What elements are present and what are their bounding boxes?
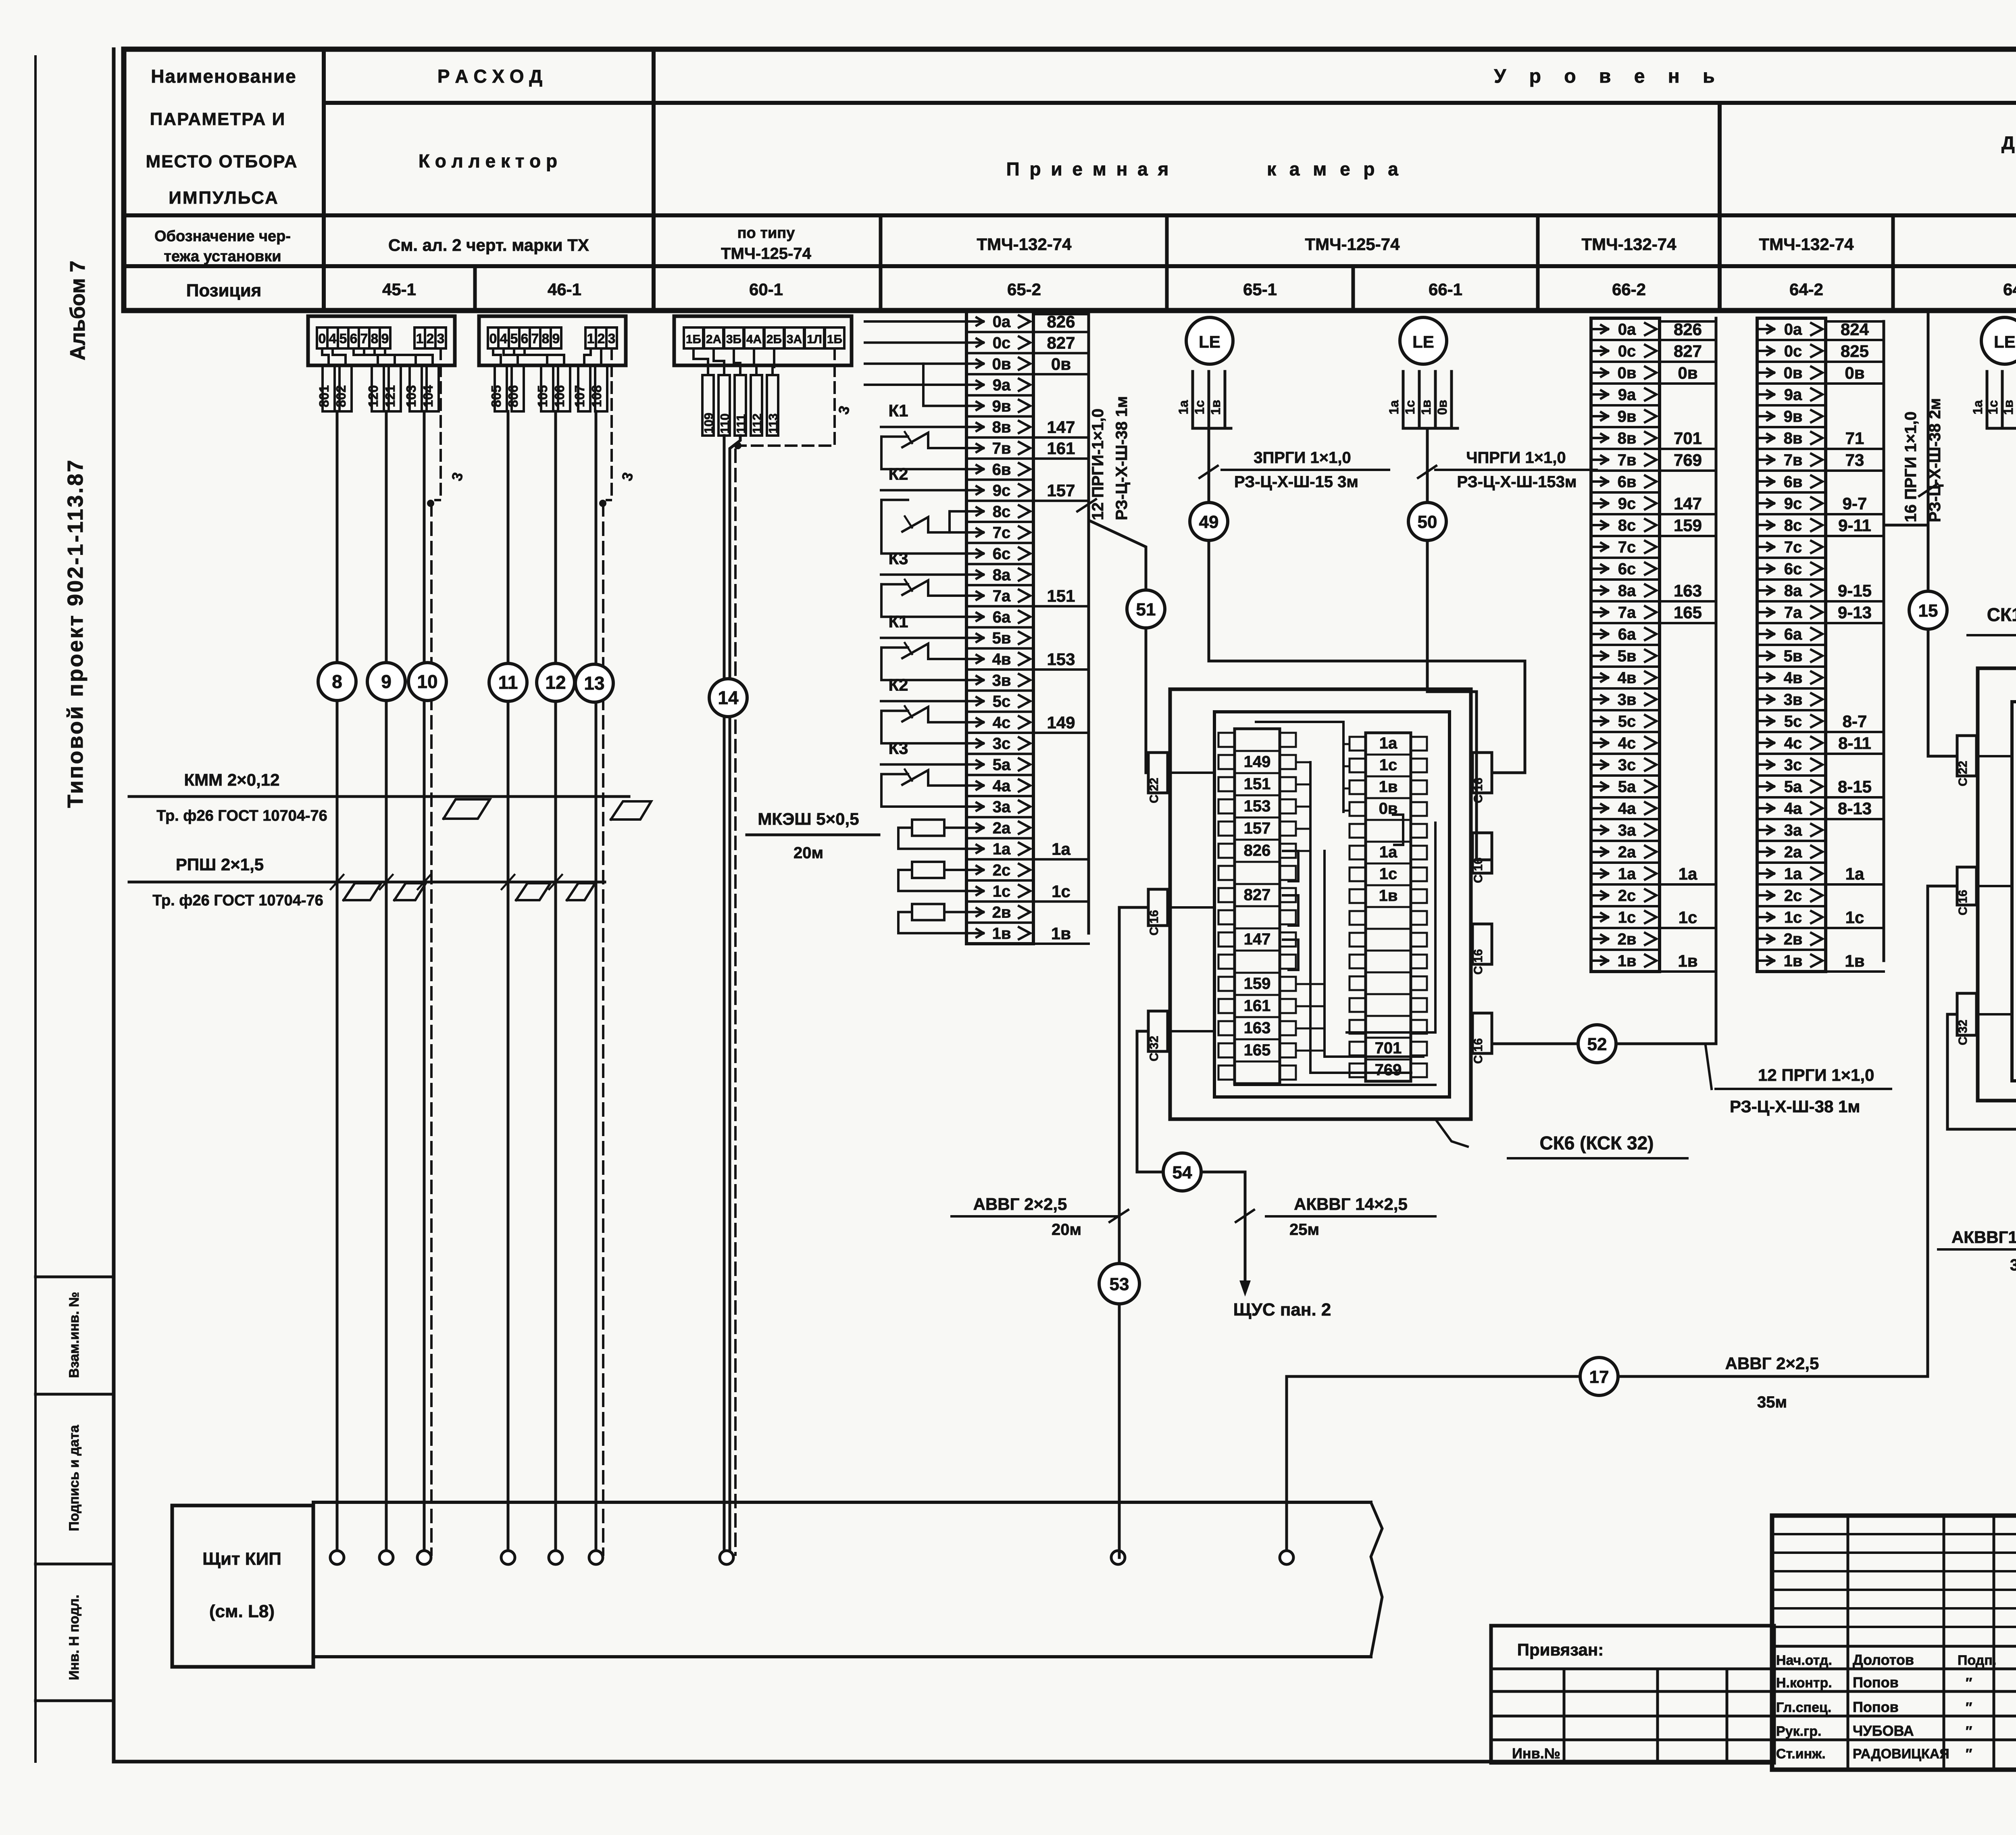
svg-text:113: 113 [766,413,780,434]
header table outer border [124,49,2016,311]
junction dot wire 108/ground [599,500,606,507]
svg-text:151: 151 [1244,775,1271,793]
strip 64-2 (XT3) bus wire label 1с [1826,927,1884,929]
svg-text:РЗ-Ц-Х-Ш-153м: РЗ-Ц-Х-Ш-153м [1457,473,1577,491]
strip 65-2 (XT1) bus wire label 161 [1033,457,1089,460]
strip 65-2 (XT1) bus wire label 149 [1033,732,1089,734]
svg-text:9с: 9с [993,482,1011,500]
wire from 65-2 bus to circle 51 [1089,507,1146,590]
svg-text:Н.контр.: Н.контр. [1776,1675,1832,1691]
strip 66-2 (XT2) bus wire label 147 [1660,513,1716,515]
SK1 connector tab S22 (left) [1957,736,1976,776]
svg-text:3ПРГИ 1×1,0: 3ПРГИ 1×1,0 [1254,449,1351,467]
SK6 hook jumper at 147 [1283,940,1298,970]
svg-text:1в: 1в [1379,778,1398,796]
svg-text:МЕСТО ОТБОРА: МЕСТО ОТБОРА [146,152,298,171]
svg-text:С 22: С 22 [1148,778,1161,803]
svg-text:121: 121 [383,385,398,407]
wire 66-2 bus down to circle 52 line [1715,318,1718,1044]
svg-text:1а: 1а [1618,865,1636,883]
svg-text:3с: 3с [1784,756,1802,774]
SK6 connector tab S16 (left) [1148,889,1168,926]
svg-text:4: 4 [329,331,337,346]
svg-text:9: 9 [552,331,560,346]
strip 64-2 (XT3) bus wire label 8-11 [1826,753,1884,755]
wire 105/106 down to panel [554,411,557,1558]
svg-text:9-7: 9-7 [1843,494,1867,513]
svg-text:МКЭШ 5×0,5: МКЭШ 5×0,5 [758,809,859,828]
svg-text:Инв. Н подл.: Инв. Н подл. [67,1595,82,1680]
cable position circle 49 [1190,503,1228,540]
drawing frame left border [112,49,116,1762]
strip 65-2 (XT1) bus wire label 157 [1033,500,1089,502]
svg-text:2с: 2с [1784,887,1802,905]
ground wire 3 dashed from 45-1 cell 3 [435,348,441,500]
level sensor LE pos.66-1 [1400,317,1447,364]
strip 64-2 (XT3) bus wire label 824 [1826,339,1884,341]
svg-text:8-15: 8-15 [1838,777,1872,796]
svg-text:Тр. ф26 ГОСТ 10704-76: Тр. ф26 ГОСТ 10704-76 [156,807,327,824]
tube marker parallelogram on KMM line 1 [444,799,490,819]
ground wire 3 dash-dot from 60-1 cell 1B [740,348,835,446]
svg-text:7с: 7с [1784,538,1802,556]
strip 65-2 (XT1) bus wire label 147 [1033,436,1089,439]
strip 66-2 (XT2) bus wire label 1а [1660,883,1716,886]
cable position circle 15 [1909,591,1947,629]
resistor R rows 2a/1a [912,819,944,836]
svg-text:161: 161 [1244,997,1271,1015]
svg-text:″: ″ [1966,1675,1972,1691]
svg-text:1а: 1а [993,840,1011,858]
sidebar box divider line 3 [35,1563,114,1566]
svg-text:107: 107 [572,385,587,407]
cable line KMM 2x0.12 with tube note [129,795,629,798]
title block upper small rows [1772,1533,2016,1535]
svg-text:0а: 0а [1618,321,1636,338]
panel top boundary line [313,1501,1371,1504]
sheet outer left edge line [34,56,37,1762]
cable line RPSh 2x1.5 with tube note [129,881,605,884]
panel right-end break squiggle [1371,1502,1382,1657]
svg-text:4с: 4с [993,714,1011,732]
wire 16PRGI vertical from table to circle 15 [1927,314,1930,591]
svg-text:17: 17 [1589,1367,1609,1387]
wire from 46-1 cells 0,4 to stub 805/806 [493,348,501,365]
level sensor LE pos.65-1 [1186,317,1233,364]
svg-text:″: ″ [1966,1700,1972,1715]
svg-text:65-1: 65-1 [1243,280,1277,299]
strip 64-2 (XT3) bus wire label 9-13 [1826,622,1884,624]
wire stub labels 103/104 (pos.45-1) [410,365,422,411]
wire from 45-1 cells 6,7 to stub 120/121 [354,348,378,365]
svg-text:153: 153 [1047,650,1075,669]
svg-text:163: 163 [1244,1019,1271,1037]
svg-text:50: 50 [1418,512,1437,532]
SK6 connector tab S16-1 (right) [1472,753,1492,793]
svg-text:8-11: 8-11 [1838,734,1871,753]
wire bundle 60-1 down to panel (solid pair) [723,436,726,1558]
svg-text:159: 159 [1674,516,1702,535]
svg-text:6с: 6с [993,545,1011,563]
ground wire 3 dashed from 46-1 cell 3 [607,348,612,500]
terminal strip 66-2 (XT2) collector bus [1715,321,1718,961]
SK6 connector tab S22 (left) [1148,753,1168,793]
svg-text:165: 165 [1244,1041,1271,1059]
terminal strip 64-2 (XT3) row labels and pin arrows [1760,328,1774,330]
sidebar box divider line 4 [35,1699,114,1702]
svg-text:5в: 5в [1784,647,1803,665]
tube marker parallelogram on RPSh line 1 [344,883,381,900]
svg-text:103: 103 [404,385,419,407]
svg-text:45-1: 45-1 [382,280,416,299]
svg-text:104: 104 [421,385,435,407]
svg-text:ТМЧ-132-74: ТМЧ-132-74 [1759,235,1854,254]
svg-text:1с: 1с [1192,400,1207,415]
svg-text:149: 149 [1244,753,1271,771]
svg-text:1: 1 [587,331,595,346]
svg-text:3с: 3с [993,735,1011,753]
svg-text:6в: 6в [992,461,1011,478]
wire stub labels 107/108 (pos.46-1) [578,365,590,411]
privyazan table outer box [1491,1626,1774,1763]
wire SK1 S32 to circle 18 and down arrow [1947,1014,2016,1185]
svg-text:2а: 2а [1784,843,1802,861]
svg-text:8: 8 [371,331,379,346]
cable position circle 10 [408,663,446,701]
svg-text:8с: 8с [1784,517,1802,534]
svg-text:5: 5 [510,331,518,346]
electrodes of LE pos.64-1 [1986,371,1989,428]
panel bottom boundary line [313,1655,1371,1658]
terminal block 45-1 (XT) cell row [317,327,327,348]
cable position circle 14 [709,679,747,717]
svg-text:0в: 0в [992,355,1011,373]
svg-text:2а: 2а [993,819,1011,837]
svg-text:0: 0 [319,331,326,346]
svg-text:1Б: 1Б [686,333,701,346]
svg-text:0в: 0в [1784,364,1803,382]
wire from 45-1 cells 8,9 to stub 103/104 [375,348,416,365]
svg-text:ЧУБОВА: ЧУБОВА [1853,1722,1914,1739]
svg-text:4с: 4с [1618,734,1636,752]
svg-text:СК6 (КСК 32): СК6 (КСК 32) [1539,1132,1654,1153]
cable position circle 9 [367,663,405,701]
svg-text:5с: 5с [1784,713,1802,730]
svg-text:0в: 0в [1678,363,1697,382]
strip 66-2 (XT2) bus wire label 701 [1660,448,1716,450]
strip 66-2 (XT2) bus wire label 1с [1660,927,1716,929]
svg-text:149: 149 [1047,713,1075,732]
wire from circle 51 to SK6 connector S22 [1145,628,1148,773]
strip 64-2 (XT3) bus wire label 73 [1826,469,1884,472]
svg-text:8-13: 8-13 [1838,799,1872,818]
svg-text:С 16: С 16 [1472,778,1485,803]
svg-text:801: 801 [317,385,331,407]
svg-text:ЧПРГИ 1×1,0: ЧПРГИ 1×1,0 [1466,449,1566,467]
strip 64-2 (XT3) bus wire label 9-11 [1826,535,1884,537]
svg-text:У р о в е н ь: У р о в е н ь [1494,66,1723,87]
svg-text:3с: 3с [1618,756,1636,774]
terminal block 60-1 outer box [674,316,852,365]
tube marker parallelogram on KMM line 2 [611,801,651,819]
svg-text:6а: 6а [1618,626,1636,643]
header table horizontal: row3 bottom (oboznachenie) [124,264,2016,268]
svg-text:1: 1 [416,331,424,346]
header table vertical: Priyemnaya kamera right edge [1718,103,1722,311]
svg-text:826: 826 [1674,320,1702,339]
svg-text:2в: 2в [1618,930,1637,948]
svg-text:161: 161 [1047,439,1075,458]
svg-text:3: 3 [608,331,616,346]
svg-text:4в: 4в [992,651,1011,668]
svg-text:ИМПУЛЬСА: ИМПУЛЬСА [169,188,279,208]
svg-text:0в: 0в [1845,363,1864,382]
svg-text:Альбом 7: Альбом 7 [66,261,90,361]
svg-text:825: 825 [1841,342,1869,361]
header table horizontal: row1 bottom (Rashod/Uroven) [324,101,2016,105]
wire S22 into SK1 interior [1976,755,2012,757]
field wires into strip 65-2 rows 0a-9v [865,320,966,323]
terminal block 45-1 (XT) outer box [308,316,455,365]
svg-text:С 32: С 32 [1956,1020,1970,1045]
svg-text:15: 15 [1918,601,1938,621]
svg-text:″: ″ [1966,1724,1972,1739]
svg-text:3а: 3а [993,798,1011,816]
svg-text:4: 4 [500,331,508,346]
svg-text:1а: 1а [1845,864,1864,883]
svg-text:2с: 2с [993,861,1011,879]
wire SK6 S32 to circle 54 [1137,1031,1163,1172]
svg-text:147: 147 [1244,930,1271,948]
svg-text:5а: 5а [1618,778,1636,796]
svg-text:7в: 7в [1784,451,1803,469]
svg-text:Гл.спец.: Гл.спец. [1776,1700,1831,1715]
cable position circle 51 [1127,590,1165,628]
cable position circle 11 [489,663,527,701]
svg-text:4а: 4а [1784,800,1802,817]
wire S32 into SK6 interior [1168,1030,1214,1032]
svg-text:9а: 9а [1618,386,1636,404]
svg-text:1а: 1а [1052,840,1070,859]
strip 64-2 (XT3) bus wire label 9-7 [1826,513,1884,515]
dashed companion wire down (45-1) [430,503,433,1555]
svg-text:769: 769 [1375,1061,1402,1079]
svg-text:6: 6 [350,331,358,346]
strip 64-2 (XT3) bus wire label 8-15 [1826,796,1884,799]
svg-text:РЗ-Ц-Х-Ш-38 1м: РЗ-Ц-Х-Ш-38 1м [1730,1097,1860,1116]
svg-text:Р А С Х О Д: Р А С Х О Д [437,66,542,87]
svg-text:СК1 (КСК ?: СК1 (КСК ? [1987,604,2016,625]
electrodes of LE pos.65-1 [1191,371,1194,428]
strip 64-2 (XT3) bus wire label 8-13 [1826,818,1884,820]
svg-text:РЗ-Ц-Х-Ш-15 3м: РЗ-Ц-Х-Ш-15 3м [1234,473,1358,491]
svg-text:1в: 1в [1678,951,1697,970]
strip 64-2 (XT3) bus wire label 1в [1826,970,1884,973]
svg-text:7а: 7а [993,587,1011,605]
svg-text:827: 827 [1047,333,1075,352]
svg-text:Щит КИП: Щит КИП [202,1549,281,1569]
svg-text:Д р е н а ж н ы й: Д р е н а ж н ы й [2001,132,2016,153]
strip 66-2 (XT2) bus wire label 159 [1660,535,1716,537]
strip 66-2 (XT2) bus wire label 165 [1660,622,1716,624]
strip 66-2 (XT2) bus wire label 163 [1660,600,1716,603]
SK6 internal horizontal links [1296,761,1310,763]
svg-text:109: 109 [702,413,716,434]
svg-text:157: 157 [1244,819,1271,837]
svg-text:8а: 8а [1618,582,1636,600]
header table horizontal: row2 bottom (Kollektor...) [124,213,2016,217]
svg-text:РПШ 2×1,5: РПШ 2×1,5 [176,855,264,874]
svg-text:Обозначение чер-: Обозначение чер- [154,228,291,245]
svg-text:2: 2 [427,331,434,346]
svg-text:73: 73 [1845,450,1864,469]
wire circle 49 to SK6 right connector S16-1 [1209,540,1525,773]
cable marker slash on 53 wire [1110,1210,1128,1222]
svg-text:20м: 20м [1052,1221,1081,1239]
svg-text:3А: 3А [787,333,802,346]
terminal block 46-1 (XT) outer box [479,316,626,365]
svg-text:К2: К2 [889,465,908,484]
svg-text:Подпись и дата: Подпись и дата [67,1424,82,1531]
header table vertical col 65-2 right [1165,215,1169,311]
wire stub labels 105/106 (pos.46-1) [541,365,553,411]
svg-text:2: 2 [598,331,605,346]
svg-text:К1: К1 [889,401,908,420]
svg-text:6а: 6а [1784,626,1802,643]
svg-text:1с: 1с [1679,908,1697,927]
svg-text:3в: 3в [1784,691,1803,709]
wire stub labels 120/121 (pos.45-1) [372,365,384,411]
svg-text:6с: 6с [1784,560,1802,578]
junction box SK6 outer enclosure [1170,689,1471,1119]
svg-text:1Б: 1Б [827,333,842,346]
wire 103/104 down to panel [423,411,426,1558]
common electrode bracket wire 64-1/63-1 [1987,427,2016,430]
SK6 hook jumper at 0v (right col) [1393,815,1403,845]
wire 805/806 down to panel [507,411,510,1558]
cable position circle 8 [318,663,356,701]
svg-text:ТМЧ-132-74: ТМЧ-132-74 [1582,235,1677,254]
svg-text:(см. L8): (см. L8) [209,1601,275,1621]
svg-text:5в: 5в [1618,647,1637,665]
dashed companion wire down (46-1) [602,503,604,1555]
svg-text:К1: К1 [889,612,908,631]
terminal strip 66-2 (XT2) body [1591,318,1660,972]
wire from 46-1 cells 1,2 to stub 107/108 [584,348,591,365]
svg-text:1с: 1с [1618,909,1636,926]
svg-text:Наименование: Наименование [151,66,296,87]
svg-text:С 32: С 32 [1148,1036,1161,1061]
header table vertical col 66-1 right [1536,215,1540,311]
svg-text:9в: 9в [992,397,1011,415]
svg-text:5а: 5а [1784,778,1802,796]
wire LE65-1 down to circle 49 [1208,428,1210,502]
strip 65-2 (XT1) bus wire label 1а [1033,858,1089,861]
wire S32 into SK1 interior [1976,1013,2012,1016]
svg-text:Привязан:: Привязан: [1517,1640,1604,1659]
svg-text:РЗ-Ц-Х-Ш-38 2м: РЗ-Ц-Х-Ш-38 2м [1926,398,1944,522]
svg-text:2А: 2А [706,333,721,346]
svg-text:АКВВГ10×2,5: АКВВГ10×2,5 [1951,1228,2016,1247]
terminal strip 64-2 (XT3) collector bus [1883,321,1885,961]
svg-text:4а: 4а [1618,800,1636,817]
svg-text:К2: К2 [889,676,908,694]
svg-text:10: 10 [417,671,437,692]
strip 65-2 (XT1) bus wire label 153 [1033,668,1089,671]
svg-text:1с: 1с [1784,909,1802,926]
svg-text:8а: 8а [1784,582,1802,600]
resistor R rows 2s/1s [912,862,944,878]
svg-text:9а: 9а [1784,386,1802,404]
svg-text:Ст.инж.: Ст.инж. [1776,1746,1826,1762]
svg-text:147: 147 [1674,494,1702,513]
SK6 right terminal cell column [1366,733,1411,1081]
cable position circle 17 [1580,1357,1618,1395]
terminal strip 65-2 (XT1) collector bus [1087,314,1090,933]
terminal strip 65-2 (XT1) body [966,311,1033,944]
svg-text:8в: 8в [1618,430,1637,447]
resistor R rows 2v/1v [912,904,944,920]
svg-text:РЗ-Ц-Х-Ш-38 1м: РЗ-Ц-Х-Ш-38 1м [1113,396,1131,520]
junction box SK1 inner box [2012,702,2016,1081]
svg-text:8с: 8с [993,503,1011,521]
svg-text:0в: 0в [1435,400,1450,415]
strip 65-2 (XT1) bus wire label 1с [1033,900,1089,903]
svg-text:163: 163 [1674,581,1702,600]
svg-text:Взам.инв. №: Взам.инв. № [67,1292,82,1378]
svg-text:827: 827 [1244,886,1271,904]
svg-text:4А: 4А [746,333,762,346]
cable marker slash 4PRGI [1418,466,1436,478]
svg-text:3Б: 3Б [726,333,741,346]
strip 64-2 (XT3) bus wire label 71 [1826,448,1884,450]
svg-text:к а м е р а: к а м е р а [1267,158,1402,179]
svg-text:С 16: С 16 [1472,1038,1485,1063]
svg-text:66-2: 66-2 [1612,280,1646,299]
cable leader slash 12PRGI at 52 [1706,1045,1712,1089]
wire 107/108 down to panel [595,411,598,1558]
svg-text:51: 51 [1136,600,1156,619]
svg-text:9а: 9а [993,376,1011,394]
svg-text:LE: LE [1412,332,1434,351]
strip 64-2 (XT3) bus wire label 825 [1826,361,1884,363]
svg-text:147: 147 [1047,418,1075,437]
svg-text:9-15: 9-15 [1838,581,1872,600]
svg-text:16 ПРГИ 1×1,0: 16 ПРГИ 1×1,0 [1902,411,1920,522]
label SK6 (KSK 32) with leader [1435,1119,1468,1147]
svg-text:4в: 4в [1618,669,1637,687]
header table vertical col 45-1/46-1 divider [473,266,477,311]
svg-text:1в: 1в [1051,924,1071,943]
header table vertical col 64-2 right / 64-1 left [1891,215,1895,311]
svg-text:Нач.отд.: Нач.отд. [1776,1653,1832,1668]
strip 66-2 (XT2) bus wire label 826 [1660,339,1716,341]
svg-text:1а: 1а [1379,734,1397,752]
svg-text:2а: 2а [1618,843,1636,861]
svg-text:3: 3 [437,331,445,346]
svg-text:9-11: 9-11 [1838,516,1871,535]
svg-text:827: 827 [1674,342,1702,361]
svg-text:71: 71 [1845,429,1864,448]
svg-text:ТМЧ-132-74: ТМЧ-132-74 [977,235,1072,254]
SK6 connector tab S32 (left) [1148,1011,1168,1051]
svg-text:5: 5 [339,331,347,346]
strip 65-2 (XT1) bus wire label 151 [1033,605,1089,607]
SK6 connector tab S16-3 (right) [1472,924,1492,964]
svg-text:111: 111 [734,414,748,434]
svg-text:9-13: 9-13 [1838,603,1872,622]
svg-text:157: 157 [1047,481,1075,500]
